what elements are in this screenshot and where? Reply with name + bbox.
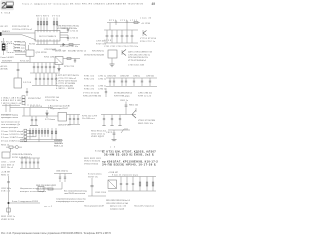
svg-text:C766 C767: C766 C767 (120, 76, 130, 78)
svg-text:R731 R732 R733 C735 10u: R731 R732 R733 C735 10u (57, 25, 79, 27)
svg-text:C822: C822 (106, 132, 113, 134)
ground (110, 125, 113, 127)
wire (91, 178, 93, 196)
svg-text:C801 1u: C801 1u (120, 100, 128, 102)
pin stubs top (38, 31, 57, 33)
logo (0, 0, 14, 11)
wire (9, 202, 41, 204)
ground (30, 125, 38, 127)
svg-text:К выв. 11 строчного тр-ра: К выв. 11 строчного тр-ра (112, 175, 139, 177)
cluster y=156-168 (20, 158, 40, 169)
svg-text:C751 C752 C753 C754 C755 10n: C751 C752 C753 C754 C755 10n (104, 46, 138, 48)
wire (20, 139, 62, 141)
svg-text:R759 1k0 R760 2k2 5%: R759 1k0 R760 2k2 5% (128, 57, 148, 59)
svg-text:5. DA771 KR142EN: 5. DA771 KR142EN (56, 85, 74, 88)
svg-text:R851 R852 R853 1МОм 0.5: R851 R852 R853 1МОм 0.5 (106, 200, 131, 202)
svg-text:C758: C758 (104, 40, 112, 42)
capacitor C842 (64, 174, 66, 183)
svg-text:7 ИКП 8 ОБЩ 9 +B: 7 ИКП 8 ОБЩ 9 +B (1, 103, 22, 105)
capacitor C765 (113, 78, 115, 86)
ground (102, 125, 105, 127)
wire (22, 115, 44, 117)
wire (61, 182, 63, 189)
capacitor C756 (131, 30, 134, 43)
svg-text:выбирать парой: выбирать парой (110, 207, 124, 210)
capacitor row 2 (35, 73, 57, 85)
svg-text:R781 10k: R781 10k (84, 76, 94, 78)
svg-text:C831 100u: C831 100u (1, 188, 11, 190)
svg-text:C751: C751 (120, 20, 128, 22)
capacitor C755 (126, 30, 129, 43)
svg-text:4 SDA 5 KEY 6 LED: 4 SDA 5 KEY 6 LED (1, 99, 22, 102)
wire (29, 56, 31, 62)
svg-text:замены проверить: замены проверить (1, 127, 18, 129)
wire (101, 114, 136, 116)
wire (38, 137, 40, 142)
svg-text:+B 125В: +B 125В (141, 23, 151, 25)
svg-text:Сопротивления указаны в омах,: Сопротивления указаны в омах, ёмк. (56, 198, 86, 200)
svg-text:VT781 KT315B: VT781 KT315B (83, 93, 100, 95)
capacitor C798 (77, 115, 79, 125)
svg-text:1 ОБЩ 2 +5В 3 SCL: 1 ОБЩ 2 +5В 3 SCL (1, 97, 22, 99)
capacitor C802 (103, 115, 105, 126)
svg-text:1 ОБЩИЙ: 1 ОБЩИЙ (15, 41, 26, 44)
transistor VT801 (132, 108, 136, 118)
inductor L751 (134, 22, 138, 24)
IC box (108, 180, 117, 189)
svg-text:C851 C852 C853 2н2 1кВ: C851 C852 C853 2н2 1кВ (106, 203, 129, 205)
svg-text:R831 1k: R831 1k (1, 174, 9, 176)
rail (108, 176, 156, 178)
svg-text:2 SDA ввод: 2 SDA ввод (15, 44, 26, 47)
svg-text:Глава 2. Цифровые БУ телевизор: Глава 2. Цифровые БУ телевизоров MK 3000… (22, 3, 144, 6)
capacitor C752 (111, 30, 114, 43)
diode VD813 (15, 146, 18, 149)
wire (104, 29, 138, 31)
svg-text:R811 R812 2k2: R811 R812 2k2 (91, 131, 107, 133)
svg-text:R815 1k: R815 1k (1, 144, 9, 146)
capacitor C780 (105, 88, 107, 97)
transistor VT753 (143, 30, 147, 36)
capacitor C853 (132, 177, 134, 192)
svg-text:ВНИМАНИЕ: ВНИМАНИЕ (54, 139, 64, 142)
svg-text:C783 1u: C783 1u (98, 86, 106, 88)
svg-text:R742 22k R743 22: R742 22k R743 22 (12, 26, 30, 28)
wire (14, 44, 20, 46)
capacitor C790 (26, 88, 28, 96)
resistor R706 (69, 44, 73, 46)
ground rail (104, 42, 138, 44)
capacitor C796 (69, 115, 71, 125)
wire (22, 35, 36, 40)
svg-text:DD701 ЛА7: DD701 ЛА7 (55, 50, 67, 53)
resistor array R712 (53, 18, 58, 31)
wire (108, 129, 130, 131)
junction (8, 202, 10, 204)
capacitor row 1 (33, 63, 55, 74)
resistor R718 (67, 58, 71, 60)
pin wires right (60, 33, 68, 38)
wire (29, 108, 31, 117)
svg-text:R789 1к 0.25: R789 1к 0.25 (138, 95, 152, 97)
svg-text:измерять относит. общего: измерять относит. общего (20, 191, 47, 193)
wire (27, 136, 36, 138)
svg-text:DA751 KR1158EN5V 5В: DA751 KR1158EN5V 5В (128, 51, 153, 54)
capacitor C843 (90, 186, 93, 187)
wire (88, 195, 106, 197)
wire (27, 130, 30, 132)
svg-text:R705 10M: R705 10M (44, 56, 54, 58)
svg-text:R791 R792 1k0: R791 R792 1k0 (45, 97, 60, 99)
wire (107, 22, 140, 24)
components x=50-58 (51, 128, 57, 140)
svg-text:FU701 0.5A ВП1-1: FU701 0.5A ВП1-1 (12, 156, 31, 159)
dashes (24, 104, 40, 106)
wire (126, 25, 128, 30)
wire (14, 47, 20, 49)
svg-text:R751: R751 (109, 20, 117, 22)
svg-text:VD781 АЛ307БМ x4: VD781 АЛ307БМ x4 (114, 92, 133, 95)
diode VD790 (46, 110, 48, 118)
svg-text:R715 4k7: R715 4k7 (20, 61, 30, 63)
wire (15, 51, 26, 53)
capacitor C770 (149, 78, 151, 86)
svg-text:К выв. 9 соединителя XS705: К выв. 9 соединителя XS705 (12, 201, 39, 203)
wire (20, 141, 62, 143)
svg-text:C791 C792 1u: C791 C792 1u (45, 100, 58, 102)
capacitor C830 (7, 182, 10, 183)
svg-text:100n 63В х5: 100n 63В х5 (1, 164, 15, 166)
svg-text:ВЫВ. 1-14: ВЫВ. 1-14 (54, 146, 64, 148)
svg-text:сети телевизоре. До: сети телевизоре. До (1, 124, 21, 126)
wire (14, 41, 20, 43)
pin drops below (38, 41, 57, 45)
svg-text:C843 2200: C843 2200 (95, 192, 107, 194)
capacitor C754 (121, 30, 124, 43)
wire (23, 108, 25, 117)
svg-text:К плате кинеск.: К плате кинеск. (88, 174, 102, 176)
svg-text:ИК ФП: ИК ФП (1, 25, 9, 28)
svg-text:при отключенном от: при отключенном от (1, 121, 20, 123)
svg-text:R817 10к х5: R817 10к х5 (1, 167, 14, 169)
svg-text:C781 1u: C781 1u (98, 76, 106, 78)
svg-text:XS706 СЕТЬ 220В 50Гц: XS706 СЕТЬ 220В 50Гц (12, 154, 33, 156)
svg-text:R801 10k: R801 10k (129, 104, 138, 106)
capacitor C852 (126, 177, 128, 192)
svg-text:R761 R762 1к: R761 R762 1к (92, 51, 104, 53)
capacitor C822 (113, 130, 116, 139)
wire (29, 137, 31, 140)
wire (8, 176, 10, 215)
wire (1, 34, 22, 36)
svg-text:C782 1u: C782 1u (98, 78, 106, 80)
capacitor C766 (121, 78, 123, 86)
capacitor C718 (74, 59, 76, 64)
svg-text:R782 22k: R782 22k (84, 78, 94, 80)
capacitor C767 (125, 78, 127, 86)
IC U701 (7, 44, 14, 53)
wire (36, 188, 62, 190)
ground (112, 140, 117, 141)
svg-text:Напряжение на выв. 5 DA751: Напряжение на выв. 5 DA751 (20, 187, 49, 190)
IC U704 (55, 57, 63, 65)
rail (106, 77, 157, 79)
svg-text:2 К выв. 14 DD701 +5В: 2 К выв. 14 DD701 +5В (1, 134, 24, 136)
wire (109, 23, 111, 31)
capacitor C769 (141, 78, 143, 86)
bracket (121, 129, 128, 133)
svg-text:Допуск ном. ±10: Допуск ном. ±10 (110, 206, 127, 208)
svg-text:C785 C786 10n: C785 C786 10n (138, 93, 152, 95)
wire (67, 114, 81, 116)
svg-text:C712 22: C712 22 (70, 30, 79, 32)
capacitor C705 (17, 63, 20, 79)
capacitor C713 (67, 35, 69, 41)
svg-text:C759 470u 16V C760 1u: C759 470u 16V C760 1u (128, 54, 150, 56)
svg-text:K SDA: K SDA (1, 11, 11, 14)
svg-text:C841 C842 1u: C841 C842 1u (56, 170, 68, 172)
svg-text:К СЛ блока: К СЛ блока (45, 119, 56, 121)
svg-text:ЗЧ-ПВ ВЭ23Б НР545, 10-17-26: ЗЧ-ПВ ВЭ23Б НР545, 10-17-26 Б (102, 163, 156, 167)
resistor R852 (146, 177, 148, 192)
capacitor C801 (120, 100, 138, 114)
svg-text:ВНИМАНИЕ! Замену: ВНИМАНИЕ! Замену (1, 113, 18, 116)
capacitor C753 (116, 30, 119, 43)
svg-text:XS705 ПУЛЬТ: XS705 ПУЛЬТ (28, 98, 42, 100)
svg-text:SDA SCL: SDA SCL (2, 30, 11, 33)
svg-text:DA705 КР1157: DA705 КР1157 (58, 123, 72, 126)
svg-text:VD761 VD762 KD522B: VD761 VD762 KD522B (84, 54, 105, 56)
svg-text:R841 220 VD841 КД522: R841 220 VD841 КД522 (36, 185, 57, 187)
wire (6, 146, 9, 148)
svg-text:R802 C805 10n: R802 C805 10n (138, 123, 153, 125)
svg-text:см. п.2: см. п.2 (44, 206, 53, 208)
svg-text:Плата А7.2 обратная: Плата А7.2 обратная (134, 204, 154, 207)
ground rail (68, 124, 80, 126)
svg-text:VD811 КД522: VD811 КД522 (91, 136, 105, 138)
wire (54, 173, 72, 175)
pin list (1, 96, 25, 105)
resistor R853 (152, 177, 154, 192)
svg-text:R821 R822 C821: R821 R822 C821 (84, 158, 102, 160)
svg-text:6. SB701 ... SB706: 6. SB701 ... SB706 (56, 88, 75, 90)
wire (111, 58, 113, 64)
svg-text:R754 С757 1u: R754 С757 1u (140, 41, 155, 43)
resistor array R711 (37, 18, 48, 31)
svg-text:XS707 ОС: XS707 ОС (88, 176, 99, 178)
svg-text:Q701 32768: Q701 32768 (36, 52, 48, 54)
svg-text:C811 C812 1u: C811 C812 1u (91, 133, 105, 135)
svg-text:2. Конденсаторы К10-17: 2. Конденсаторы К10-17 (48, 108, 69, 110)
svg-text:К выв. 1-6 ИКП: К выв. 1-6 ИКП (1, 57, 15, 59)
transistor VT755 (122, 50, 126, 56)
capacitor C851 (120, 177, 122, 192)
svg-text:C768 1u: C768 1u (133, 76, 140, 78)
svg-text:3 SCL выв.: 3 SCL выв. (15, 48, 25, 50)
svg-text:A1 SCL: A1 SCL (1, 65, 9, 68)
diode VD705 (58, 65, 60, 75)
svg-text:к выв. 40: к выв. 40 (140, 18, 152, 20)
svg-text:VD731 KD522 C736 100n: VD731 KD522 C736 100n (57, 28, 77, 30)
wire (63, 58, 80, 60)
svg-text:KEY1 KEY2: KEY1 KEY2 (36, 15, 50, 17)
resistor R851 (139, 177, 141, 192)
wire (15, 54, 26, 56)
svg-text:VT705: VT705 (52, 15, 61, 17)
svg-text:Рис. 2.14. Принципиальная схем: Рис. 2.14. Принципиальная схема платы уп… (1, 231, 112, 235)
svg-text:VT801 KT3107BM: VT801 KT3107BM (138, 120, 155, 122)
svg-text:R707 100 C707 10n: R707 100 C707 10n (60, 46, 78, 48)
capacitor C797 (73, 115, 75, 125)
svg-text:производить только: производить только (1, 117, 19, 119)
IC U703 (14, 78, 22, 88)
svg-text:3 К выв. 3 DA751 вход: 3 К выв. 3 DA751 вход (1, 136, 24, 139)
svg-text:Плата управления А7: Плата управления А7 (84, 205, 105, 208)
svg-text:VT755 КТ3102БМ х2: VT755 КТ3102БМ х2 (128, 60, 147, 62)
capacitor C768 (133, 78, 135, 86)
connector edge (0, 32, 2, 36)
IC U705 (58, 113, 67, 122)
svg-text:49: 49 (152, 2, 156, 6)
svg-text:R785 220 R786 330: R785 220 R786 330 (83, 95, 102, 97)
svg-text:R787 R788 держ.: R787 R788 держ. (114, 95, 130, 97)
ground rail (108, 190, 156, 192)
svg-text:C815 ... C819: C815 ... C819 (1, 162, 16, 164)
wire (10, 148, 12, 152)
resistor R813 (9, 146, 13, 148)
resistor R841 (48, 188, 53, 190)
svg-text:R832 C832 1u: R832 C832 1u (1, 216, 15, 218)
wire (36, 44, 58, 46)
box (2, 152, 10, 158)
capacitor C751b (126, 20, 128, 25)
svg-text:R783 47k: R783 47k (84, 86, 94, 88)
svg-text:C784 1u: C784 1u (98, 88, 106, 90)
svg-text:DD706: DD706 (23, 82, 32, 84)
wire (1, 32, 35, 34)
wire (28, 45, 30, 50)
main wire (1, 62, 58, 64)
svg-text:C741 10n C742 10n x2: C741 10n C742 10n x2 (12, 29, 33, 31)
pin stubs bottom (38, 39, 57, 41)
wire (44, 115, 58, 117)
svg-text:VD821 KD522Б: VD821 KD522Б (84, 161, 101, 163)
ground (110, 64, 115, 67)
pin list left (1, 129, 27, 142)
svg-text:ЗАМЫКАТЬ: ЗАМЫКАТЬ (54, 142, 64, 145)
svg-text:3Б-ИМ 23.-[ВЭ 8] ЕН5В, 2к2 Б: 3Б-ИМ 23.-[ВЭ 8] ЕН5В, 2к2 Б (104, 153, 154, 157)
wire (27, 133, 33, 135)
wire (58, 44, 80, 46)
svg-text:25В х 2: 25В х 2 (1, 191, 11, 193)
svg-text:+12В ИП: +12В ИП (1, 172, 11, 174)
wire (30, 72, 58, 74)
svg-text:2: 2 (1, 1, 6, 12)
svg-text:в микрофарадах если не указано: в микрофарадах если не указано (56, 200, 85, 203)
svg-text:C764 C765: C764 C765 (107, 76, 117, 78)
capacitor C712 (67, 28, 69, 33)
capacitor C751 (106, 30, 109, 43)
svg-text:типа К50-35 или аналоги: типа К50-35 или аналоги (64, 193, 85, 195)
capacitor C794 (31, 116, 33, 125)
svg-text:C713 22: C713 22 (70, 37, 79, 39)
capacitor C751a (115, 20, 117, 25)
svg-text:4 КЛЮЧ +5: 4 КЛЮЧ +5 (15, 51, 26, 53)
svg-text:A2 SDA: A2 SDA (1, 68, 9, 71)
svg-text:DD701 PCA84C4: DD701 PCA84C4 (39, 35, 57, 38)
IC DD701 microcontroller (35, 31, 60, 42)
svg-text:1 К выв. 7 DD701 общий: 1 К выв. 7 DD701 общий (1, 130, 23, 133)
capacitor C795 (35, 116, 37, 125)
IR receiver U701 (3, 38, 5, 55)
svg-text:R784 47k: R784 47k (84, 88, 94, 90)
svg-text:10u 16В тант.: 10u 16В тант. (82, 118, 95, 120)
ground rail (106, 86, 157, 88)
box U702 (26, 50, 34, 56)
svg-text:R795 220 С799: R795 220 С799 (82, 115, 98, 117)
ground rail (32, 85, 58, 87)
verticals left (5, 104, 7, 112)
capacitor C803 (111, 115, 113, 126)
capacitor C764 (109, 78, 111, 86)
capacitor C841 (59, 174, 61, 183)
svg-text:Все электролитические конд.: Все электролитические конд. (64, 190, 87, 192)
IC DA751 (108, 50, 117, 58)
diode VD703 (62, 44, 65, 46)
wire (25, 42, 27, 50)
capacitor C804 (119, 115, 121, 126)
svg-text:VT753 КТ315Б: VT753 КТ315Б (140, 38, 157, 40)
wire (10, 107, 53, 109)
svg-text:R793 R794: R793 R794 (30, 106, 43, 108)
svg-text:XS703 KEY: XS703 KEY (2, 60, 13, 62)
bus verticals (29, 128, 49, 137)
ground (118, 125, 121, 127)
svg-text:R719 C719: R719 C719 (64, 66, 75, 68)
box (38, 187, 44, 192)
svg-text:C769 10n: C769 10n (146, 76, 154, 78)
resistor R832 (7, 208, 10, 212)
wire (14, 50, 20, 52)
svg-text:±5: ±5 (110, 147, 116, 149)
svg-text:C763 100n 50В: C763 100n 50В (128, 65, 145, 67)
svg-text:VD832 КС156: VD832 КС156 (1, 219, 15, 221)
svg-text:RC705: RC705 (29, 44, 36, 46)
svg-text:VT821 KT315Б: VT821 KT315Б (84, 163, 99, 165)
svg-text:К561ЛА7 DD702 х2: К561ЛА7 DD702 х2 (68, 50, 87, 53)
